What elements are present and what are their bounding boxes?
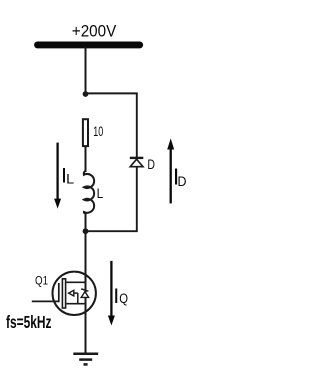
Q1 drain stub <box>66 281 85 283</box>
wire: node B through transistor to ground <box>85 230 87 353</box>
wire: diode branch vertical <box>136 93 138 231</box>
Q1 source stub <box>66 303 85 305</box>
Q1 gate lead <box>32 300 59 302</box>
diode D cathode bar <box>130 157 144 159</box>
svg-text:L: L <box>97 185 104 201</box>
inductor L <box>84 171 94 213</box>
wire: rail to node A <box>85 47 87 95</box>
transistor Q1 circle <box>52 272 95 315</box>
wire: node B to diode branch bottom <box>86 230 138 232</box>
svg-text:Q1: Q1 <box>35 274 48 288</box>
Q1 gate electrode <box>58 283 60 302</box>
node B junction dot <box>83 228 89 234</box>
Q1 source riser <box>77 293 79 304</box>
svg-text:D: D <box>178 173 187 189</box>
ground bar 3 <box>84 363 88 366</box>
Q1 body diode triangle <box>81 292 88 298</box>
svg-text:Q: Q <box>119 291 128 306</box>
current arrow ID (up) <box>170 148 172 204</box>
Q1 gate plate <box>62 279 65 308</box>
current arrow IL (down) <box>56 143 58 201</box>
resistor 10 <box>83 119 88 146</box>
ground bar 1 <box>73 352 98 355</box>
svg-text:L: L <box>66 170 74 186</box>
ground bar 2 <box>79 358 92 361</box>
Q1 source arrow line <box>74 292 78 294</box>
node A junction dot <box>83 91 89 97</box>
supply rail bar +200V <box>38 41 140 48</box>
svg-text:fs=5kHz: fs=5kHz <box>6 312 52 332</box>
wire: node A to diode branch top <box>86 92 138 94</box>
diode D triangle <box>130 159 143 167</box>
wire: resistor to inductor <box>85 146 87 172</box>
svg-text:D: D <box>147 157 155 172</box>
svg-text:+200V: +200V <box>72 23 117 41</box>
current arrow IQ (down) <box>110 261 112 318</box>
Q1 body diode bar <box>81 289 88 291</box>
wire: inductor to node B <box>85 213 87 232</box>
Q1 source arrowhead <box>69 290 74 296</box>
svg-text:10: 10 <box>93 123 103 139</box>
